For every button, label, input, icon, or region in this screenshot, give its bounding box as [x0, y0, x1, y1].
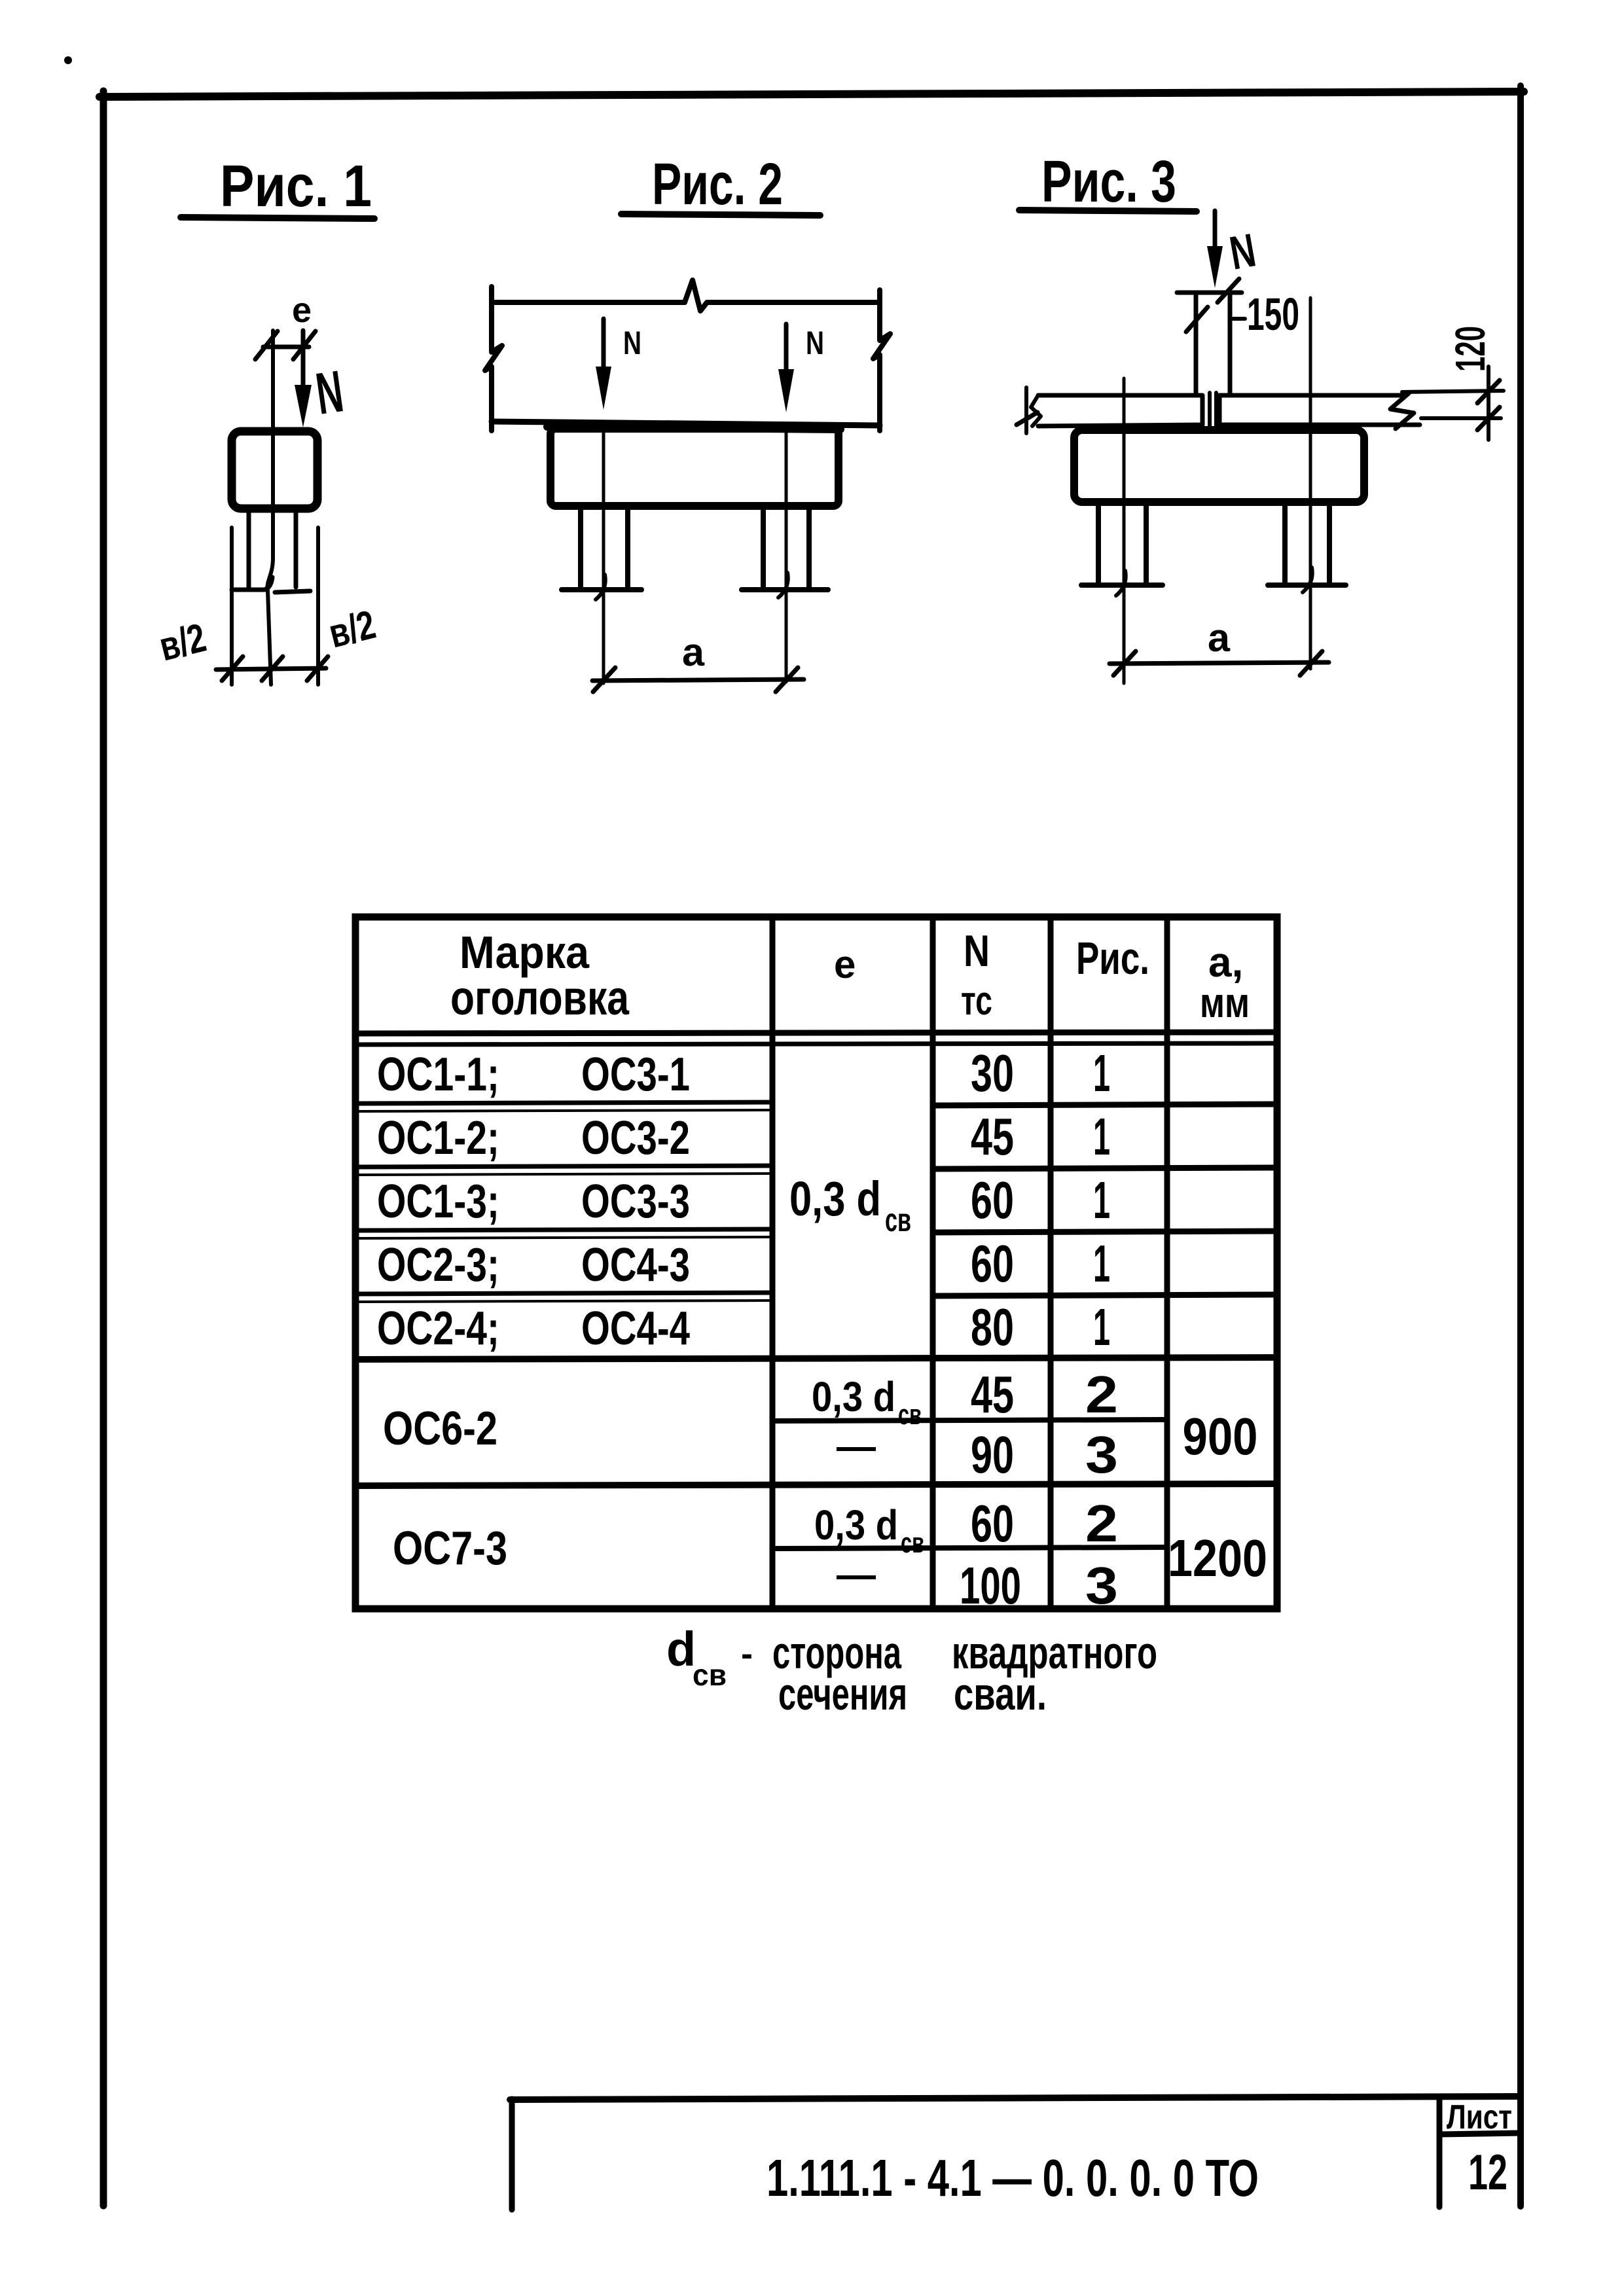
- svg-text:1: 1: [1093, 1107, 1110, 1166]
- svg-text:сваи.: сваи.: [954, 1668, 1047, 1719]
- svg-text:0,3 d: 0,3 d: [812, 1373, 895, 1420]
- svg-text:1: 1: [1093, 1234, 1110, 1293]
- svg-text:d: d: [666, 1622, 696, 1676]
- svg-text:мм: мм: [1200, 979, 1250, 1026]
- svg-text:1: 1: [1093, 1171, 1110, 1229]
- svg-text:тс: тс: [961, 978, 992, 1024]
- svg-text:120: 120: [1447, 326, 1494, 372]
- svg-text:оголовка: оголовка: [450, 971, 630, 1025]
- svg-text:N: N: [964, 926, 990, 976]
- svg-text:30: 30: [971, 1044, 1014, 1102]
- svg-text:ОС1-1;: ОС1-1;: [377, 1049, 499, 1101]
- svg-text:60: 60: [971, 1171, 1014, 1229]
- svg-text:ОС2-4;: ОС2-4;: [377, 1302, 499, 1355]
- svg-text:2: 2: [1085, 1365, 1118, 1424]
- svg-text:1.111.1 - 4.1 — 0. 0. 0. 0 ТО: 1.111.1 - 4.1 — 0. 0. 0. 0 ТО: [767, 2149, 1259, 2207]
- svg-text:60: 60: [971, 1234, 1014, 1293]
- svg-text:0,3 d: 0,3 d: [814, 1501, 898, 1549]
- svg-text:ОС6-2: ОС6-2: [383, 1403, 497, 1455]
- svg-text:св: св: [898, 1399, 922, 1431]
- svg-text:ОС3-3: ОС3-3: [581, 1175, 690, 1228]
- svg-text:ОС7-3: ОС7-3: [393, 1522, 507, 1575]
- svg-text:—: —: [837, 1552, 876, 1596]
- svg-text:сечения: сечения: [778, 1668, 907, 1719]
- svg-text:12: 12: [1468, 2145, 1507, 2200]
- svg-text:Рис. 1: Рис. 1: [220, 154, 372, 219]
- svg-text:1200: 1200: [1168, 1529, 1267, 1587]
- svg-text:90: 90: [971, 1426, 1014, 1484]
- svg-text:N: N: [806, 325, 824, 361]
- svg-text:е: е: [292, 291, 312, 330]
- svg-text:Лист: Лист: [1447, 2098, 1512, 2136]
- svg-text:св: св: [901, 1527, 924, 1559]
- svg-text:2: 2: [1085, 1494, 1118, 1552]
- svg-text:-: -: [741, 1634, 753, 1674]
- svg-text:св: св: [885, 1202, 911, 1238]
- svg-text:3: 3: [1085, 1556, 1118, 1615]
- svg-text:Рис.: Рис.: [1076, 933, 1149, 984]
- svg-text:N: N: [623, 325, 641, 361]
- svg-text:а: а: [1208, 616, 1231, 660]
- svg-text:ОС4-3: ОС4-3: [581, 1239, 690, 1291]
- svg-text:ОС3-2: ОС3-2: [581, 1112, 690, 1164]
- svg-text:0,3 d: 0,3 d: [789, 1172, 881, 1226]
- svg-text:60: 60: [971, 1494, 1014, 1552]
- svg-text:ОС1-3;: ОС1-3;: [377, 1175, 499, 1228]
- svg-text:45: 45: [971, 1365, 1014, 1424]
- svg-text:3: 3: [1085, 1426, 1118, 1484]
- svg-text:Рис. 2: Рис. 2: [652, 152, 783, 217]
- svg-text:80: 80: [971, 1298, 1014, 1356]
- svg-text:—: —: [837, 1424, 876, 1468]
- svg-text:900: 900: [1183, 1407, 1258, 1465]
- svg-text:150: 150: [1247, 289, 1299, 340]
- svg-text:45: 45: [971, 1107, 1014, 1166]
- svg-text:100: 100: [960, 1556, 1021, 1615]
- svg-text:ОС2-3;: ОС2-3;: [377, 1239, 499, 1291]
- svg-text:св: св: [693, 1658, 727, 1692]
- svg-text:Рис. 3: Рис. 3: [1041, 149, 1176, 215]
- svg-text:ОС4-4: ОС4-4: [581, 1302, 690, 1355]
- svg-text:ОС1-2;: ОС1-2;: [377, 1112, 499, 1164]
- svg-text:1: 1: [1093, 1044, 1110, 1102]
- svg-text:е: е: [834, 942, 856, 986]
- svg-text:а: а: [682, 630, 705, 674]
- svg-text:1: 1: [1093, 1298, 1110, 1356]
- svg-text:ОС3-1: ОС3-1: [581, 1049, 690, 1101]
